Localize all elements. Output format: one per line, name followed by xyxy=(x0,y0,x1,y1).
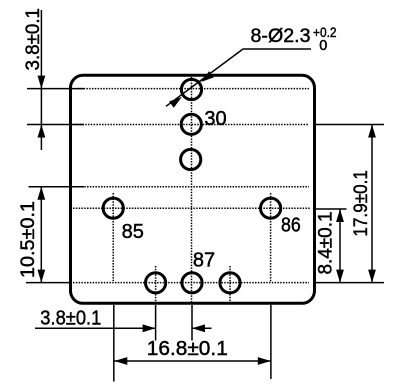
svg-text:17.9±0.1: 17.9±0.1 xyxy=(351,170,372,237)
svg-text:0: 0 xyxy=(319,38,327,54)
svg-text:16.8±0.1: 16.8±0.1 xyxy=(147,338,228,360)
svg-text:3.8±0.1: 3.8±0.1 xyxy=(40,307,101,329)
svg-text:8-Ø2.3: 8-Ø2.3 xyxy=(251,26,311,47)
svg-text:8.4±0.1: 8.4±0.1 xyxy=(316,212,337,275)
svg-text:86: 86 xyxy=(281,215,301,237)
svg-text:87: 87 xyxy=(193,250,215,272)
svg-text:10.5±0.1: 10.5±0.1 xyxy=(18,201,39,278)
svg-text:85: 85 xyxy=(122,221,144,243)
svg-text:3.8±0.1: 3.8±0.1 xyxy=(23,8,44,71)
svg-text:30: 30 xyxy=(204,108,226,130)
